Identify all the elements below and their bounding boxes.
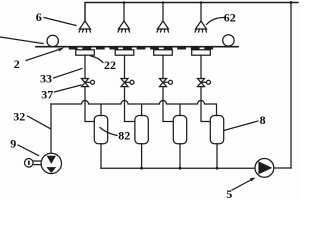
wire right riser: [290, 3, 292, 169]
suction box unit2: [115, 50, 134, 55]
svg-text:37: 37: [41, 87, 53, 101]
leader label 37: [55, 85, 82, 92]
valve 37 unit1: [82, 79, 95, 87]
leader label 33: [54, 69, 83, 79]
svg-text:8: 8: [260, 113, 266, 127]
valve unit2: [121, 79, 134, 87]
suction box unit4: [192, 50, 211, 55]
wire manifold stub tank3: [179, 104, 181, 116]
suction box unit3: [154, 50, 173, 55]
node rail junction: [290, 1, 293, 4]
wire nozzle drop 4: [200, 3, 202, 22]
wire nozzle drop 3: [162, 3, 164, 22]
suction box 22 unit1: [76, 50, 95, 55]
leader label 8: [224, 121, 258, 131]
roller left: [47, 35, 58, 46]
wire top manifold 32 with hops: [51, 101, 217, 116]
wire tank4 bottom stub: [216, 144, 218, 168]
node bottom junction tank2: [140, 167, 143, 170]
leader label 62: [207, 18, 225, 25]
tank unit2: [135, 116, 148, 144]
node bottom junction tank4: [216, 167, 219, 170]
leader label 9: [18, 145, 39, 156]
wire tank1 bottom stub: [100, 144, 102, 168]
nozzle 4 / 62: [195, 21, 207, 32]
svg-text:32: 32: [13, 110, 25, 124]
leader label 32: [28, 116, 51, 129]
wire valve2 to tank2 side: [125, 87, 135, 122]
pump 9 rotor triangles: [47, 156, 56, 164]
leader label 22: [91, 56, 103, 63]
svg-text:5: 5: [226, 187, 232, 200]
wire manifold down to pump 9: [50, 104, 52, 153]
wire box2 to valve2: [124, 55, 126, 78]
wire box1 to valve1: [84, 55, 86, 78]
wire tank3 bottom stub: [179, 144, 181, 168]
node bottom junction tank3: [179, 167, 182, 170]
nozzle 3: [157, 21, 169, 32]
pump 9 coupling: [33, 161, 41, 165]
wire tank2 bottom stub: [141, 144, 143, 168]
valve unit3: [160, 79, 173, 87]
pump 9 motor circle: [25, 159, 34, 168]
nozzle 1: [79, 21, 91, 32]
svg-text:6: 6: [36, 10, 42, 24]
nozzle 2: [118, 21, 130, 32]
svg-text:9: 9: [10, 137, 16, 151]
leader label 6: [44, 18, 76, 26]
svg-text:2: 2: [14, 57, 20, 71]
svg-text:62: 62: [224, 11, 236, 25]
tank 82 unit1: [94, 116, 107, 144]
leader label 82: [100, 128, 117, 136]
pump 5 rotor triangle: [258, 161, 272, 174]
node rail-nozzle2: [123, 1, 126, 4]
leader label 5 arrow: [232, 179, 253, 190]
svg-text:22: 22: [104, 58, 116, 72]
wire bottom manifold: [101, 167, 255, 169]
wire manifold stub tank2: [141, 104, 143, 116]
wire box3 to valve3: [162, 55, 164, 78]
belt segment dashes: [69, 47, 213, 49]
svg-text:33: 33: [40, 71, 52, 85]
node rail-nozzle3: [162, 1, 165, 4]
svg-text:82: 82: [118, 129, 130, 143]
tank unit3: [173, 116, 186, 144]
wire nozzle drop 2: [123, 3, 125, 22]
leader label 2 arrow: [26, 49, 62, 61]
wire top supply rail: [85, 3, 298, 22]
node rail-nozzle4: [200, 1, 203, 4]
valve unit4: [198, 79, 211, 87]
leader edge to roller: [0, 37, 43, 44]
wire valve4 to tank4 side: [201, 87, 210, 122]
wire valve3 to tank3 side: [163, 87, 173, 122]
wire box4 to valve4: [200, 55, 202, 78]
pump 9 body: [41, 153, 61, 173]
conveyor belt line 2: [36, 46, 238, 48]
roller right: [223, 35, 234, 46]
wire valve1 to tank1 side: [85, 87, 94, 122]
tank 8 unit4: [210, 116, 223, 144]
pump 9 motor tick: [28, 161, 30, 165]
wire pump5 outlet to riser: [274, 167, 291, 169]
wire manifold stub tank1: [100, 104, 102, 116]
pump 5 body: [255, 159, 274, 178]
